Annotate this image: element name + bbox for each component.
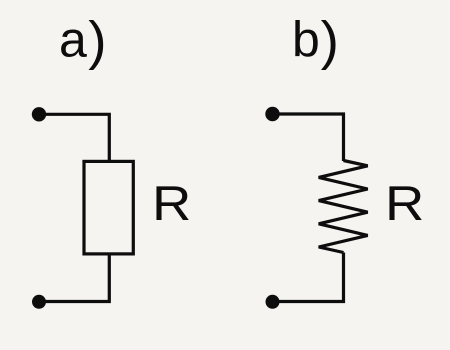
resistor R2 (zigzag / ANSI symbol) [319,161,368,253]
svg-text:b: b [292,11,320,67]
wire: circuit b, top horizontal + vertical down to resistor [273,114,344,161]
wire: circuit b, vertical from resistor bottom + bottom horizontal [273,253,344,302]
wire: circuit a, top horizontal + vertical down to resistor [39,114,109,161]
terminal dot: circuit a, bottom-left node [32,295,46,309]
svg-text:): ) [321,12,339,71]
svg-text:a: a [59,11,87,67]
resistor R1 (rectangle / IEC symbol) [84,161,133,254]
terminal dot: circuit a, top-left node [32,107,46,121]
terminal dot: circuit b, top-left node [265,107,279,121]
svg-text:R: R [385,176,424,231]
wire: circuit a, vertical from resistor bottom + bottom horizontal [39,254,109,302]
svg-text:R: R [152,176,191,231]
terminal dot: circuit b, bottom-left node [266,295,280,309]
svg-text:): ) [88,12,106,71]
